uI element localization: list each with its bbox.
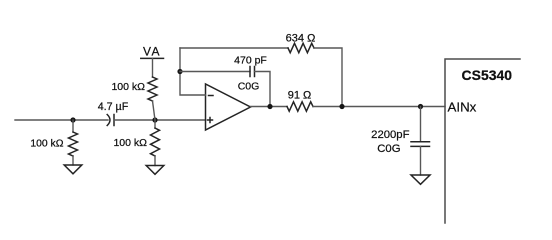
wire 470pF rail right down to output — [255, 72, 271, 107]
capacitor 4.7uF — [98, 101, 129, 126]
capacitor 2200pF C0G shunt — [371, 107, 429, 176]
node 634 output junction — [339, 104, 344, 109]
svg-text:470 pF: 470 pF — [234, 55, 267, 67]
svg-text:CS5340: CS5340 — [462, 67, 513, 83]
resistor 91 series output — [287, 90, 313, 112]
svg-text:2200pF: 2200pF — [371, 129, 409, 141]
node input junction — [70, 117, 75, 122]
ground bias — [146, 166, 164, 175]
power VA — [141, 45, 164, 59]
wire output to AINx pin — [313, 106, 445, 108]
wire input left segment — [15, 119, 108, 121]
svg-text:100 kΩ: 100 kΩ — [30, 139, 63, 150]
node 2200pF junction — [418, 104, 423, 109]
ground input — [64, 165, 82, 174]
svg-text:634 Ω: 634 Ω — [286, 33, 316, 45]
wire inverting input — [180, 48, 206, 95]
wire 634 rail left — [180, 47, 288, 49]
svg-text:VA: VA — [143, 45, 161, 59]
svg-text:91 Ω: 91 Ω — [288, 90, 312, 102]
svg-text:4.7 µF: 4.7 µF — [98, 101, 129, 113]
svg-text:C0G: C0G — [377, 143, 400, 155]
op-amp U1 — [206, 84, 251, 130]
wire 634 rail right down to output — [314, 48, 342, 107]
node 470pF output junction — [267, 104, 272, 109]
resistor 100k input shunt — [30, 120, 77, 165]
resistor 634 feedback — [286, 33, 316, 53]
resistor 100k bias shunt — [113, 120, 159, 166]
node bias junction — [152, 117, 157, 122]
svg-text:100 kΩ: 100 kΩ — [111, 81, 145, 93]
node feedback junction — [177, 69, 182, 74]
svg-text:C0G: C0G — [238, 81, 260, 93]
svg-text:100 kΩ: 100 kΩ — [113, 137, 147, 149]
resistor 100k pull-up to VA — [111, 58, 157, 120]
wire 470pF rail left — [180, 71, 250, 73]
IC CS5340 outline — [445, 59, 520, 223]
svg-text:AINx: AINx — [448, 100, 477, 115]
ground 2200pF — [411, 175, 430, 184]
wire op-amp output — [251, 106, 288, 108]
capacitor 470pF C0G feedback — [234, 55, 267, 93]
wire from capacitor to op-amp non-inverting input — [115, 119, 206, 121]
